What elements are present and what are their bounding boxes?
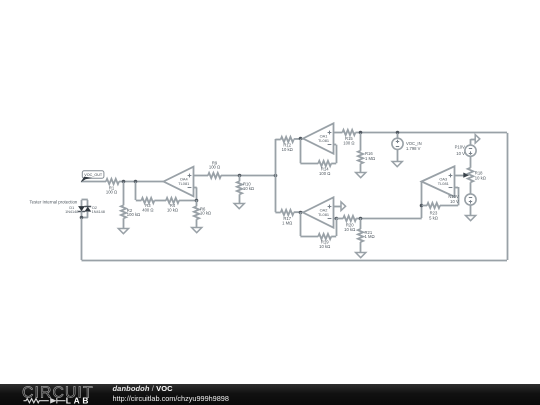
svg-text:100 Ω: 100 Ω [106, 190, 117, 195]
svg-text:10 kΩ: 10 kΩ [167, 207, 178, 212]
svg-text:100 kΩ: 100 kΩ [127, 212, 140, 217]
svg-text:TL081: TL081 [438, 181, 449, 186]
svg-text:TL081: TL081 [318, 212, 329, 217]
svg-text:1 MΩ: 1 MΩ [365, 234, 375, 239]
svg-text:1N4148: 1N4148 [92, 210, 105, 214]
svg-text:5 kΩ: 5 kΩ [429, 216, 438, 221]
svg-text:10 kΩ: 10 kΩ [282, 147, 293, 152]
svg-text:VOC_OUT: VOC_OUT [84, 173, 103, 177]
svg-text:Tester Internal protection: Tester Internal protection [30, 199, 78, 204]
svg-text:P10V: P10V [455, 145, 465, 150]
svg-text:100 Ω: 100 Ω [343, 141, 354, 146]
svg-text:1 MΩ: 1 MΩ [282, 221, 292, 226]
svg-text:10 V: 10 V [450, 199, 459, 204]
svg-text:1N4148: 1N4148 [65, 210, 78, 214]
svg-text:10 V: 10 V [456, 151, 465, 156]
svg-text:10 kΩ: 10 kΩ [319, 244, 330, 249]
svg-text:1.798 V: 1.798 V [406, 146, 421, 151]
svg-text:10 kΩ: 10 kΩ [475, 176, 486, 181]
svg-text:TL081: TL081 [178, 181, 189, 186]
svg-text:LAB: LAB [66, 396, 91, 405]
svg-text:TL081: TL081 [318, 138, 329, 143]
svg-text:10 kΩ: 10 kΩ [243, 186, 254, 191]
svg-text:1 MΩ: 1 MΩ [365, 156, 375, 161]
svg-text:100 Ω: 100 Ω [209, 165, 220, 170]
svg-text:100 Ω: 100 Ω [319, 171, 330, 176]
svg-text:10 kΩ: 10 kΩ [200, 211, 211, 216]
svg-text:10 kΩ: 10 kΩ [344, 227, 355, 232]
svg-text:400 Ω: 400 Ω [142, 207, 153, 212]
